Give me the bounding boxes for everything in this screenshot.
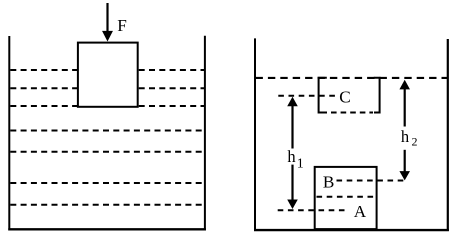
h2 arrow up head (400, 81, 409, 89)
right tank right wall (447, 39, 449, 231)
h1 arrow down head (288, 200, 297, 208)
dashed level line at A (bottom of h1) (278, 209, 347, 211)
dashed level line at top of h1 (278, 95, 337, 97)
h2 arrow down head (400, 172, 409, 180)
left tank right wall (204, 36, 206, 231)
right tank left wall (254, 38, 256, 230)
water line 6 (10, 182, 204, 184)
h1 arrow up head (288, 98, 297, 106)
svg-text:h: h (401, 127, 410, 146)
water line left segment 1 (10, 69, 77, 71)
svg-text:A: A (354, 202, 367, 221)
h1 arrow lower shaft (291, 165, 293, 202)
water surface line right tank (256, 77, 448, 79)
svg-text:h: h (287, 147, 296, 166)
dashed boundary between A and B (317, 196, 376, 198)
water line right segment 3 (139, 105, 204, 107)
left tank left wall (8, 36, 10, 231)
svg-text:2: 2 (412, 135, 418, 149)
block B/A outer rectangle (315, 167, 377, 229)
floating block under force F (78, 43, 138, 107)
block C right edge (374, 78, 380, 113)
h2 arrow upper shaft (404, 87, 406, 127)
svg-text:B: B (323, 172, 334, 191)
right tank bottom (254, 229, 449, 231)
left tank bottom (8, 228, 206, 230)
water line right segment 2 (139, 87, 204, 89)
block C bottom dashes (331, 112, 373, 114)
svg-text:F: F (117, 16, 127, 35)
block C left edge (319, 78, 327, 113)
water line 4 (10, 130, 204, 132)
force arrow F shaft (106, 3, 108, 33)
water line 5 (10, 151, 204, 153)
water line left segment 2 (10, 87, 77, 89)
dashed level line at B (bottom of h2) (337, 180, 408, 182)
water line 7 (10, 204, 204, 206)
svg-text:C: C (339, 88, 350, 107)
water line left segment 3 (10, 105, 77, 107)
h1 arrow upper shaft (291, 104, 293, 149)
svg-text:1: 1 (297, 157, 304, 172)
water line right segment 1 (139, 69, 204, 71)
force arrow F head (103, 31, 113, 40)
h2 arrow lower shaft (404, 150, 406, 174)
